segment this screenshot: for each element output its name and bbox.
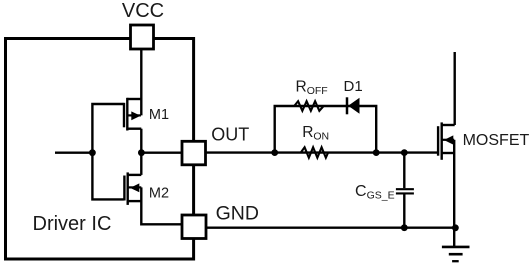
svg-text:MOSFET: MOSFET — [463, 132, 530, 149]
wire: GND pad to ground rail — [205, 226, 455, 228]
OUT pad — [182, 141, 206, 165]
wire: M1 source to M2 drain — [140, 129, 142, 175]
ground — [442, 247, 470, 261]
resistor RON — [301, 147, 328, 157]
svg-text:VCC: VCC — [122, 0, 164, 22]
svg-text:GND: GND — [216, 203, 259, 225]
wire: input stub — [55, 151, 92, 153]
node: gate bus junction — [89, 149, 96, 156]
wire: MOSFET drain stub — [454, 52, 456, 125]
transistor M1 — [124, 98, 141, 131]
VCC pad — [131, 25, 154, 49]
transistor M2 — [124, 172, 141, 205]
wire: top branch (ROFF/D1 bypass) — [275, 106, 377, 153]
svg-text:D1: D1 — [344, 78, 363, 95]
wire: output node to OUT pad — [141, 151, 183, 153]
wire: gate bus (M1 gate to M2 gate) — [92, 104, 123, 199]
resistor ROFF — [294, 101, 323, 111]
node: source ground junction — [452, 224, 459, 231]
wire: capacitor bottom lead — [403, 194, 405, 227]
svg-text:M2: M2 — [149, 185, 169, 201]
wire: capacitor top lead — [403, 153, 405, 189]
svg-text:Driver IC: Driver IC — [33, 213, 112, 235]
power MOSFET — [438, 122, 455, 159]
node: driver output junction — [138, 149, 145, 156]
wire: VCC drop to M1 — [140, 47, 142, 115]
wire: OUT pad to MOSFET gate — [205, 151, 439, 153]
diode D1 — [347, 97, 360, 114]
node: capacitor bottom junction — [401, 224, 408, 231]
node: branch right junction — [373, 149, 380, 156]
Driver IC box — [6, 39, 194, 260]
node: capacitor top junction — [401, 149, 408, 156]
wire: M2 source to GND pad — [141, 187, 183, 224]
capacitor CGS_E — [396, 189, 414, 193]
wire: MOSFET source to ground — [453, 153, 455, 246]
svg-text:OUT: OUT — [211, 125, 249, 145]
GND pad — [182, 215, 206, 239]
node: branch left junction — [271, 149, 278, 156]
svg-text:M1: M1 — [149, 107, 169, 123]
